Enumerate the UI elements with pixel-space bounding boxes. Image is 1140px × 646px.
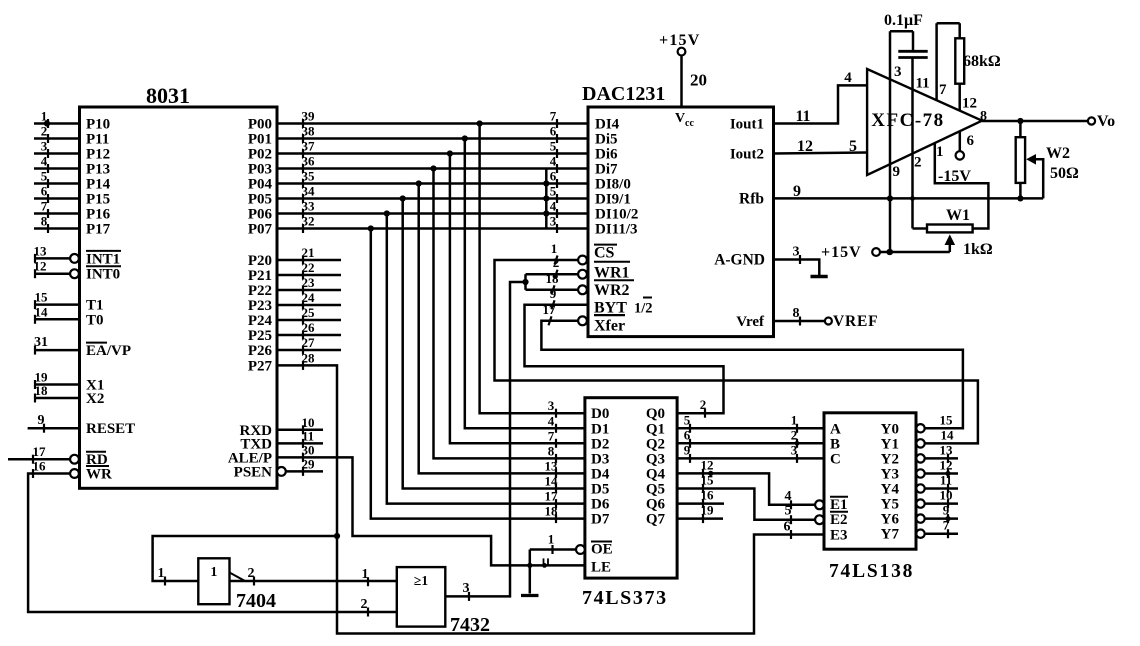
svg-text:26: 26 [302,320,316,335]
svg-text:28: 28 [302,350,316,365]
svg-text:5: 5 [785,504,792,519]
svg-text:P13: P13 [86,162,110,178]
74LS138 Y outputs bubbles and stubs [916,412,958,538]
IC 74LS138 body [824,413,916,582]
svg-text:29: 29 [302,456,316,471]
svg-text:Y2: Y2 [881,451,899,467]
svg-text:T1: T1 [86,298,104,314]
svg-text:2: 2 [553,255,560,270]
svg-text:7432: 7432 [450,614,490,636]
svg-text:1: 1 [362,567,369,582]
8031 pin 9 RESET stub [28,413,80,433]
svg-text:BYT: BYT [594,300,627,317]
8031 left pin labels [86,117,135,483]
svg-text:P03: P03 [248,162,272,178]
svg-text:5: 5 [550,184,557,199]
svg-text:13: 13 [940,442,954,457]
svg-text:15: 15 [940,412,954,427]
wire 74LS373 Q5 pin15 to 74LS138 E2 pin5 [677,473,824,525]
svg-text:17: 17 [543,302,557,317]
svg-text:14: 14 [35,304,49,319]
svg-text:0.1μF: 0.1μF [884,12,923,29]
svg-text:4: 4 [550,199,557,214]
svg-text:10: 10 [940,488,953,503]
svg-text:23: 23 [302,275,316,290]
svg-text:6: 6 [550,124,557,139]
svg-text:LE: LE [591,559,611,575]
8031 pin 17 RD stub with bubble [8,444,79,464]
svg-text:12: 12 [962,96,977,112]
svg-text:7: 7 [548,428,555,443]
svg-text:21: 21 [302,245,315,260]
svg-text:Q0: Q0 [646,406,665,422]
wire DAC WR1,WR2 tied, from 7432 output pin3 [445,255,587,601]
svg-text:12: 12 [701,457,714,472]
svg-text:P07: P07 [248,222,273,238]
DAC Vref pin8 to VREF terminal [774,306,879,330]
svg-text:VREF: VREF [833,313,878,330]
svg-text:Q3: Q3 [646,451,665,467]
IC 8031 microcontroller body [80,83,278,488]
svg-text:36: 36 [302,154,316,169]
svg-text:Q2: Q2 [646,436,665,452]
svg-text:W1: W1 [946,207,970,224]
svg-text:cc: cc [685,118,694,129]
svg-text:74LS138: 74LS138 [829,561,914,582]
svg-text:P04: P04 [248,177,273,193]
bus tap verticals P0 bus down to 74LS373 D0-D7 [368,120,585,518]
svg-text:Y7: Y7 [881,527,900,543]
svg-text:6: 6 [784,520,791,535]
svg-text:EA/VP: EA/VP [86,343,131,359]
svg-text:P06: P06 [248,207,273,223]
svg-text:B: B [830,436,840,452]
wire 74LS373 Q4 pin12 to 74LS138 E1 pin4 [677,457,824,509]
svg-text:P02: P02 [248,147,272,163]
svg-text:P05: P05 [248,192,272,208]
svg-text:P15: P15 [86,192,110,208]
svg-text:DI9/1: DI9/1 [595,192,631,208]
8031 pins 13,12 INT1 INT0 stubs with bubbles [34,243,79,278]
svg-text:E2: E2 [830,512,848,528]
svg-text:38: 38 [302,124,316,139]
svg-text:7: 7 [939,82,947,98]
svg-text:+15V: +15V [659,32,700,49]
svg-text:17: 17 [33,444,47,459]
svg-text:3: 3 [463,581,470,596]
svg-text:P16: P16 [86,207,111,223]
wire DAC Xfer pin17 to 74LS138 Y0 pin15 [541,302,963,429]
svg-text:35: 35 [302,169,316,184]
wire P27 branch to 7404 input pin1 [153,536,337,586]
svg-text:C: C [830,451,841,467]
svg-text:DI4: DI4 [595,117,620,133]
svg-text:14: 14 [545,474,559,489]
svg-text:1: 1 [158,566,165,581]
svg-text:1: 1 [551,241,558,256]
svg-text:11: 11 [795,108,810,125]
svg-text:3: 3 [791,442,798,457]
svg-text:6: 6 [684,427,691,442]
wire 74LS373 Q2 pin6 to 74LS138 B [677,427,824,448]
svg-text:9: 9 [793,183,801,200]
svg-text:2: 2 [700,397,707,412]
op-amp pin11/pin2 vertical (cap bottom plate to W1 left) [910,58,930,229]
svg-text:P01: P01 [248,132,272,148]
svg-text:INT1: INT1 [86,251,120,267]
svg-text:1kΩ: 1kΩ [963,241,993,258]
svg-text:39: 39 [302,109,316,124]
P00-P07 bus wires 8031 to DAC (pins 39-32) [277,109,588,234]
svg-text:27: 27 [302,335,316,350]
svg-text:18: 18 [35,383,49,398]
svg-text:CS: CS [594,245,615,262]
svg-text:Di7: Di7 [595,162,618,178]
wire P27 pin28 down to bottom bus and 74LS138 E3 [277,350,824,633]
+15V supply terminal at DAC Vcc pin 20 [659,32,707,107]
svg-text:5: 5 [41,169,48,184]
svg-text:37: 37 [302,139,316,154]
svg-text:D0: D0 [591,406,609,422]
74LS373 OE pin1 grounded [521,532,585,596]
svg-text:31: 31 [34,335,48,350]
+15V terminal left of W1 [821,244,950,261]
svg-text:74LS373: 74LS373 [582,587,668,609]
wire ALE/P pin30 to 74LS373 LE [277,442,585,566]
74LS138 pin labels [830,421,899,543]
svg-text:1: 1 [791,412,798,427]
svg-text:24: 24 [302,290,316,305]
OR gate 7432 [397,567,490,636]
8031 pins 19,18 X1 X2 stubs [34,370,80,403]
svg-text:8: 8 [793,306,800,321]
svg-text:DAC1231: DAC1231 [582,83,665,105]
svg-text:P14: P14 [86,177,111,193]
svg-text:9: 9 [550,286,557,301]
svg-text:8: 8 [41,214,48,229]
svg-text:30: 30 [302,442,315,457]
DAC A-GND pin3 to ground [774,245,828,277]
op-amp pin3/pin9 vertical (cap top plate to +15V node) [887,31,902,255]
74LS373 D input pin numbers [545,398,559,523]
svg-text:+15V: +15V [821,244,862,261]
svg-text:7: 7 [41,199,48,214]
svg-text:7: 7 [550,109,557,124]
svg-text:4: 4 [844,70,852,86]
svg-text:13: 13 [545,458,559,473]
svg-text:19: 19 [701,503,715,518]
svg-text:22: 22 [302,260,315,275]
svg-text:3: 3 [548,398,555,413]
svg-text:P12: P12 [86,147,110,163]
svg-text:A: A [830,421,841,437]
svg-text:P20: P20 [248,253,272,269]
svg-text:Y1: Y1 [881,436,899,452]
svg-text:15: 15 [701,473,715,488]
svg-text:E1: E1 [830,497,848,513]
DAC1231 control pin labels [594,245,653,335]
svg-text:DI8/0: DI8/0 [595,177,631,193]
svg-text:P00: P00 [248,117,272,133]
P20-P26 stub wires pins 21-27 [277,245,341,355]
svg-text:P21: P21 [248,268,272,284]
svg-text:Y4: Y4 [881,482,900,498]
svg-text:D1: D1 [591,421,609,437]
svg-text:3: 3 [793,245,800,260]
svg-text:12: 12 [940,458,953,473]
svg-text:8031: 8031 [146,83,190,108]
svg-text:WR1: WR1 [594,265,630,282]
DAC1231 data input labels and Vcc [595,111,694,238]
8031 PSEN stub pin29 with bubble [277,456,323,476]
svg-text:P24: P24 [248,313,273,329]
wire DAC CS pin1 to 74LS138 Y1 pin14 [495,241,978,443]
8031 pin 31 EA/VP stub [34,335,80,355]
potentiometer W1 1kohm with wiper from +15V [927,207,993,258]
74LS373 pin labels [591,406,665,575]
svg-text:P11: P11 [86,132,109,148]
svg-text:20: 20 [690,71,707,90]
tie vertical DI8/0-DI11/3 near DAC [543,169,549,229]
svg-text:2: 2 [791,427,798,442]
8031 RXD TXD stubs pins 10,11 [277,415,323,448]
svg-text:3: 3 [550,214,557,229]
svg-text:13: 13 [34,243,48,258]
svg-text:11: 11 [916,76,930,92]
svg-text:6: 6 [967,133,975,149]
svg-text:4: 4 [785,489,792,504]
svg-text:D4: D4 [591,466,610,482]
resistor 68k with loop to pin7 [937,23,1001,111]
svg-text:Y3: Y3 [881,467,899,483]
IC DAC1231 body [582,83,774,337]
svg-text:DI11/3: DI11/3 [595,222,638,238]
svg-text:14: 14 [941,427,955,442]
svg-text:P22: P22 [248,283,272,299]
svg-text:1: 1 [210,565,217,580]
svg-text:P26: P26 [248,343,273,359]
svg-text:Vref: Vref [736,314,765,330]
svg-text:1/2: 1/2 [634,301,653,317]
svg-text:Vo: Vo [1097,113,1115,130]
svg-text:5: 5 [684,412,691,427]
svg-text:8: 8 [548,443,555,458]
svg-text:DI10/2: DI10/2 [595,207,638,223]
capacitor 0.1uF [884,12,928,58]
svg-text:D6: D6 [591,497,610,513]
svg-text:X2: X2 [86,391,104,407]
svg-text:32: 32 [302,214,315,229]
svg-text:12: 12 [34,259,47,274]
svg-text:2: 2 [248,566,255,581]
svg-text:P17: P17 [86,222,111,238]
svg-text:WR2: WR2 [594,282,630,299]
svg-text:3: 3 [41,139,48,154]
svg-text:D2: D2 [591,436,609,452]
svg-text:8: 8 [980,109,987,124]
svg-text:A-GND: A-GND [714,252,765,269]
svg-text:P10: P10 [86,117,110,133]
svg-text:17: 17 [545,489,559,504]
svg-text:T0: T0 [86,312,104,328]
svg-text:33: 33 [302,199,316,214]
svg-text:RESET: RESET [86,421,135,437]
DAC data input pin numbers [550,109,557,234]
74LS373 Q6 pin16 stub [677,488,724,509]
svg-text:≥1: ≥1 [414,573,428,588]
wire DAC BYT1/2 pin9 to 74LS373 Q0 pin2 [525,286,724,418]
svg-text:68kΩ: 68kΩ [963,53,1001,70]
8031 pins 1-8 P10-P17 stub wires [34,109,80,234]
svg-text:W2: W2 [1046,145,1070,162]
svg-text:XFC-78: XFC-78 [871,110,944,131]
8031 right pin labels [228,117,273,481]
op-amp pin6 to -15V terminal [938,132,975,185]
svg-text:16: 16 [33,459,47,474]
svg-text:Y0: Y0 [881,421,899,437]
svg-text:1: 1 [936,144,944,160]
svg-text:6: 6 [41,184,48,199]
svg-text:6: 6 [550,169,557,184]
svg-text:11: 11 [302,428,314,443]
svg-text:Y5: Y5 [881,497,899,513]
DAC1231 right pin labels [714,117,765,331]
inverter 7404 [198,558,276,612]
svg-text:4: 4 [548,413,555,428]
potentiometer W2 50ohm [1016,121,1079,201]
op-amp XFC-78 triangle [867,69,982,175]
svg-text:-15V: -15V [938,168,971,185]
svg-text:9: 9 [893,164,901,180]
svg-text:50Ω: 50Ω [1050,165,1079,182]
svg-text:34: 34 [302,184,316,199]
svg-text:12: 12 [797,138,813,155]
svg-text:Rfb: Rfb [739,190,764,207]
IC 74LS373 body [582,398,677,609]
svg-text:P25: P25 [248,328,272,344]
svg-text:Q7: Q7 [646,512,666,528]
wire DAC Iout1 pin11 to op-amp input 4 [774,70,868,125]
svg-text:2: 2 [361,597,368,612]
svg-text:15: 15 [35,290,49,305]
svg-text:PSEN: PSEN [234,464,273,480]
svg-text:5: 5 [849,138,857,155]
wire 7404 output pin2 to 7432 input pin1 [230,566,397,586]
74LS373 Q7 pin19 stub [677,503,723,524]
svg-text:9: 9 [38,413,45,428]
wire DAC Iout2 pin12 to op-amp input 5 [774,138,868,155]
svg-text:P27: P27 [248,358,273,374]
svg-text:Iout1: Iout1 [730,117,764,133]
svg-text:Q5: Q5 [646,482,665,498]
svg-text:D5: D5 [591,482,609,498]
svg-text:D3: D3 [591,451,609,467]
svg-text:18: 18 [545,504,559,519]
svg-text:Di6: Di6 [595,147,618,163]
svg-text:18: 18 [546,271,560,286]
svg-text:2: 2 [914,155,922,171]
svg-text:V: V [675,111,685,126]
svg-text:9: 9 [943,503,950,518]
svg-text:4: 4 [41,154,48,169]
svg-text:9: 9 [684,442,691,457]
svg-text:D7: D7 [591,512,610,528]
svg-text:INT0: INT0 [86,267,120,283]
svg-text:3: 3 [894,64,902,80]
svg-text:7404: 7404 [236,590,276,612]
svg-text:P23: P23 [248,298,272,314]
wire DAC Rfb pin9 node line [774,183,1044,200]
op-amp pin1 wire to W1 right [935,143,989,229]
svg-text:Y6: Y6 [881,512,900,528]
svg-text:E3: E3 [830,528,848,544]
svg-text:Di5: Di5 [595,132,618,148]
svg-text:OE: OE [591,542,613,558]
wire WR pin16 to 7432 input 2 [28,459,397,617]
op-amp output pin8 to Vo terminal [980,109,1115,130]
wire 74LS373 Q1 pin5 to 74LS138 A [677,412,824,433]
wire 74LS373 Q3 pin9 to 74LS138 C [677,442,824,463]
svg-text:Iout2: Iout2 [730,147,764,163]
svg-text:16: 16 [701,488,715,503]
svg-text:25: 25 [302,305,316,320]
svg-text:Q1: Q1 [646,421,665,437]
svg-text:Q6: Q6 [646,497,666,513]
svg-text:Xfer: Xfer [594,318,625,335]
svg-text:5: 5 [550,139,557,154]
8031 pins 15,14 T1 T0 stubs [34,290,80,324]
svg-text:1: 1 [548,532,555,547]
svg-text:WR: WR [86,467,112,483]
svg-text:Q4: Q4 [646,466,666,482]
svg-text:4: 4 [550,154,557,169]
